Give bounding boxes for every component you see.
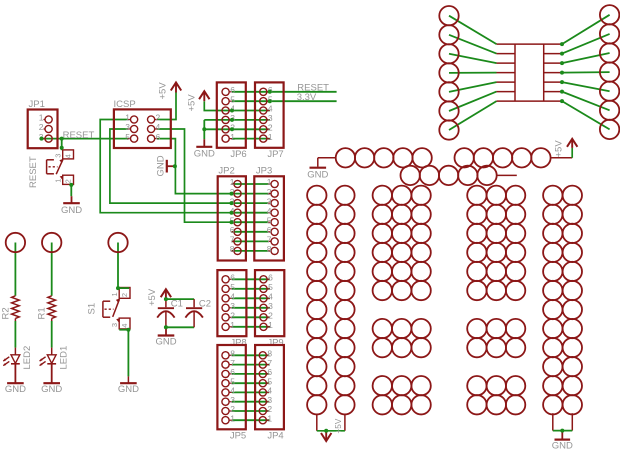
wire JP1 to RESET switch [61,139,63,151]
connector JP9 [255,270,284,348]
wire RESET from JP6-6 through JP7-6 [232,91,337,93]
connector JP8 [217,270,246,348]
led LED1 [40,346,70,370]
offset pad row [401,166,497,185]
junction dots at JP6 and JP7 pins [230,90,272,132]
svg-text:1: 1 [230,413,235,423]
junction at S1 pin 4 [126,328,130,332]
svg-text:1: 1 [267,177,272,187]
junction at S1 pin 2 [116,286,120,290]
wire RESET net JP1-3 to ICSP-5 [42,138,128,140]
wire pad to R2 [14,243,16,296]
svg-text:GND: GND [194,149,215,160]
svg-text:6: 6 [230,273,235,283]
led LED2 [3,346,33,370]
socket U1 right pads [600,5,619,139]
svg-text:4: 4 [156,122,161,132]
ground under RESET switch [61,196,82,216]
svg-text:8: 8 [267,244,272,254]
supply +5V above ICSP [158,82,182,100]
svg-text:5: 5 [230,282,235,292]
connector JP5 [217,345,246,442]
stub wire right of offset pad row [497,174,517,176]
top pad row right group [455,148,551,167]
wire ICSP-4 to JP2-5 [158,129,232,222]
left rail column B [335,186,354,415]
left rail column A [307,186,326,415]
junction +5V at C1 [164,297,168,301]
wire ICSP-2 to +5V [158,93,177,120]
svg-text:6: 6 [230,225,235,235]
svg-text:5: 5 [125,132,130,142]
svg-text:1: 1 [125,113,130,123]
wire ICSP-6 to JP2-2 via GND [158,139,232,194]
ground at top pad row [307,168,328,181]
junction at right rails GND [560,429,564,433]
ground under LED2 [5,364,26,395]
svg-text:R2: R2 [0,307,11,319]
wires JP2 to JP3 rows [232,184,269,251]
ground under S1 [118,383,139,395]
svg-text:JP1: JP1 [29,99,45,110]
ground left-rotated near ICSP [156,155,175,176]
svg-text:1: 1 [110,292,119,296]
svg-text:LED2: LED2 [22,346,33,370]
svg-text:+5V: +5V [554,140,565,158]
svg-text:2: 2 [64,179,73,183]
svg-text:GND: GND [307,170,328,181]
right rail column B [563,186,582,415]
wires U1 body to right pads [562,15,610,130]
junction at JP1 pin 3 [40,137,44,141]
svg-text:JP2: JP2 [218,165,234,176]
wire pad to S1 [117,243,119,289]
svg-text:1: 1 [230,320,235,330]
wire 3.3V from JP6-5 through JP7-5 [232,100,337,102]
wire ICSP-1 to JP2-4 [100,120,231,213]
svg-text:S1: S1 [87,303,98,315]
svg-text:JP7: JP7 [267,149,283,160]
svg-text:GND: GND [155,337,176,348]
svg-text:1: 1 [268,132,273,142]
ground under LED1 [41,364,62,395]
svg-text:5: 5 [267,215,272,225]
svg-text:GND: GND [156,155,167,176]
wire R2 to LED2 [14,318,16,354]
svg-text:+5V: +5V [187,94,198,112]
svg-text:2: 2 [267,187,272,197]
ground below +5V near JP6 [194,139,215,159]
svg-text:6: 6 [267,225,272,235]
svg-text:JP8: JP8 [230,337,246,348]
supply +5V at C1 [147,288,171,306]
svg-text:3: 3 [125,122,130,132]
socket U1 left pads [439,6,458,140]
supply +5V down at left rails [321,418,343,441]
wire ICSP-3 to JP2-3 [110,129,232,203]
resistor R2 [0,296,19,320]
right rail column A [543,186,562,415]
svg-text:8: 8 [230,244,235,254]
pad for R1 [42,233,61,252]
svg-text:GND: GND [118,384,139,395]
supply +5V left of JP6 [187,91,210,111]
ground at right rails [552,431,573,452]
svg-text:2: 2 [120,293,129,297]
svg-text:7: 7 [230,235,235,245]
svg-text:R1: R1 [37,307,48,319]
center pad block right [467,186,525,415]
svg-text:2: 2 [230,311,235,321]
wire top pad row to GND [318,158,336,167]
center pad block left [373,186,431,415]
wire right rails to GND [553,413,573,430]
svg-text:2: 2 [39,122,44,132]
connector JP4 [255,345,284,442]
svg-text:3: 3 [268,301,273,311]
wire top pad row to +5V [551,148,573,158]
junction at GND near ICSP [173,164,177,168]
svg-text:3.3V: 3.3V [297,92,317,103]
wire JP6-1 to JP7-1 [232,138,270,140]
svg-text:4: 4 [267,206,272,216]
svg-text:3: 3 [230,301,235,311]
junction GND bus at JP6-2 row [202,127,206,131]
connector JP6 [217,82,247,159]
svg-text:GND: GND [552,440,573,451]
svg-text:LED1: LED1 [59,346,70,370]
svg-text:4: 4 [230,292,235,302]
supply +5V at top pad row [554,139,578,158]
svg-text:1: 1 [39,113,44,123]
svg-text:1: 1 [267,413,272,423]
socket U1 body [497,44,563,101]
pad for S1 [108,233,127,252]
junction at RESET switch pin 4 [60,146,64,150]
switch S1 [87,288,131,329]
svg-text:GND: GND [5,384,26,395]
wire left rails to +5V [317,414,345,430]
junction GND at C1 [164,325,168,329]
ground under C1 [155,327,176,347]
svg-text:6: 6 [156,132,161,142]
svg-text:3: 3 [110,323,119,327]
capacitor C2 [185,298,211,327]
wire overlay at S1 pin 2 [118,287,129,289]
wire +5V to capacitors [166,298,194,300]
svg-text:RESET: RESET [63,130,95,141]
svg-text:JP6: JP6 [230,149,246,160]
wire R1 to LED1 [51,318,53,354]
svg-text:JP9: JP9 [267,337,283,348]
connector ICSP [114,99,171,148]
svg-text:JP3: JP3 [256,165,272,176]
connector JP3 [254,165,284,260]
svg-text:JP5: JP5 [230,431,246,442]
svg-text:3: 3 [267,196,272,206]
junction at RESET switch pin 2 [69,183,73,187]
capacitor C1 [157,298,183,327]
wire overlay at S1 pin 4 [119,329,128,331]
svg-text:4: 4 [120,324,129,328]
junction at left rails +5V [324,429,328,433]
junctions at U1 body right stubs [560,42,564,103]
switch S-RESET [28,150,74,188]
wire +5V to JP6-4 [204,101,269,110]
svg-text:JP4: JP4 [267,431,283,442]
svg-text:+5V: +5V [147,288,158,306]
svg-text:1: 1 [54,179,63,183]
wires JP5 to JP4 rows [232,355,269,420]
connector JP2 [218,165,246,260]
wire GND to JP6-3 and JP6-2 [204,120,269,139]
connector JP7 [255,82,284,159]
connector JP1 [28,99,58,148]
wire RESET switch to GND [70,185,72,196]
svg-text:2: 2 [268,311,273,321]
wire pad to R1 [51,243,53,296]
svg-text:GND: GND [61,205,82,216]
svg-text:4: 4 [268,292,273,302]
svg-text:RESET: RESET [28,156,39,188]
resistor R1 [37,296,56,320]
svg-text:6: 6 [268,273,273,283]
wire S1 to GND [127,330,129,383]
wires JP8 to JP9 rows [232,279,270,327]
top pad row left group [336,148,432,167]
svg-text:4: 4 [64,154,73,158]
svg-text:5: 5 [268,282,273,292]
wire capacitors to GND [166,326,194,328]
svg-text:7: 7 [267,235,272,245]
wires U1 left pads to body [449,16,497,130]
svg-text:+5V: +5V [158,82,169,100]
svg-text:2: 2 [156,113,161,123]
svg-text:1: 1 [268,320,273,330]
svg-text:1: 1 [230,177,235,187]
pad for R2 [6,233,25,252]
svg-text:GND: GND [41,384,62,395]
svg-text:3: 3 [54,154,63,158]
svg-text:1: 1 [230,132,235,142]
junction dots at JP2 pins [230,192,234,225]
svg-text:+5V: +5V [334,418,343,433]
junction RESET wire to switch branch [60,137,64,141]
